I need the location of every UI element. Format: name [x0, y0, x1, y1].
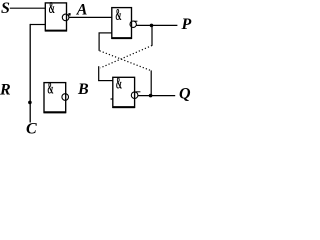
U4 output inversion bubble [131, 92, 138, 99]
junction on P wire [150, 24, 154, 28]
node C label [26, 121, 37, 138]
U4 pin2 stub [111, 98, 114, 100]
tick artifact at U4 bubble [136, 91, 141, 93]
nand gate U1 (top-left) [45, 3, 67, 31]
wire Q feedback vertical [98, 33, 100, 51]
node Q label [179, 86, 191, 103]
wire S input to U1 [10, 7, 46, 9]
wire P: U2 output to P label [136, 24, 177, 26]
svg-text:C: C [26, 121, 37, 134]
node P label [181, 16, 192, 33]
svg-text:Q: Q [179, 86, 191, 103]
node B label [77, 81, 89, 98]
junction on C bus [28, 101, 32, 105]
U4 AND symbol & [116, 73, 122, 92]
svg-text:&: & [115, 5, 121, 24]
svg-text:&: & [116, 73, 122, 92]
wire P feedback dotted diagonal [100, 46, 152, 68]
nand gate U4 (bottom-right) [113, 77, 135, 107]
tick artifact at U1 output [68, 13, 70, 15]
svg-text:P: P [181, 16, 192, 33]
tick artifact at U2 bubble [134, 20, 138, 22]
U3 output inversion bubble [62, 94, 69, 101]
wire C vertical bus [29, 24, 31, 123]
node R label [0, 81, 11, 98]
U2 output inversion bubble [130, 21, 136, 27]
svg-text:S: S [1, 0, 10, 17]
wire P feedback vertical [151, 25, 153, 45]
svg-text:A: A [76, 2, 88, 19]
node A label [76, 2, 88, 19]
wire Q feedback horizontal into U2 pin2 [99, 32, 112, 34]
wire Q: U4 output to Q label [138, 95, 175, 97]
nand gate U2 (top-right) [112, 8, 132, 39]
svg-text:&: & [47, 78, 53, 97]
wire Q feedback dotted diagonal [100, 51, 152, 71]
wire C horizontal into U1 pin2 [30, 24, 45, 26]
junction on Q wire [149, 94, 153, 98]
svg-text:R: R [0, 81, 11, 98]
svg-text:B: B [77, 81, 89, 98]
U1 AND symbol & [49, 0, 55, 17]
U3 AND symbol & [47, 78, 53, 97]
svg-text:&: & [49, 0, 55, 17]
wire P feedback vertical to U4 [98, 66, 100, 80]
nand gate U3 (bottom-left) [44, 83, 66, 113]
wire A: U1 output to U2 input [69, 16, 112, 18]
node S label [1, 0, 10, 17]
U2 AND symbol & [115, 5, 121, 24]
wire Q feedback vertical from Q node [150, 70, 152, 95]
U1 output inversion bubble [62, 14, 69, 21]
wire P feedback into U4 pin1 [98, 80, 113, 82]
